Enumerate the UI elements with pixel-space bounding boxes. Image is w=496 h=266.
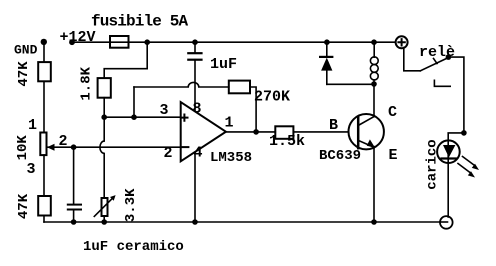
relay switch blade [420,58,447,71]
trimmer R5 3.3K [102,198,108,216]
NO contact [434,80,450,86]
junction rail/coil [371,39,377,45]
terminal output (bottom) [440,216,453,229]
svg-text:GND: GND [14,43,38,58]
wire pin4 to rail [194,152,196,222]
resistor R6 1.5k [275,126,293,139]
wire GND to R1 [43,42,45,62]
minus symbol (pin2) [181,146,188,148]
junction switch contact [446,54,452,60]
wire switch to LED [448,57,464,141]
resistor R2 47K (bottom) [38,196,51,216]
capacitor C2 1uF ceramico [73,147,75,204]
wire pin3 input [104,116,181,118]
junction feedback tap [131,114,137,120]
relay coil L1 [373,42,375,57]
wire op-amp output [226,131,275,133]
plus symbol (pin3) [181,115,187,121]
wire pot to R2 [43,155,45,196]
svg-text:1.5k: 1.5k [269,133,305,150]
svg-text:B: B [329,117,338,134]
svg-text:8: 8 [193,101,202,118]
wire trimmer to rail [103,216,105,222]
trimmer arrow [94,198,113,217]
svg-text:+12V: +12V [60,29,96,46]
wire C1 to pin8 [194,60,196,111]
base bar [357,117,360,148]
potentiometer P1 10K [40,133,46,156]
svg-text:carico: carico [425,139,441,189]
fuse F1 [110,36,129,48]
wire bottom rail [44,221,447,223]
node A (non-inverting input net) [101,114,107,120]
diode D1 [326,42,328,57]
wire terminal to switch pivot [404,48,421,71]
junction emitter/rail [371,219,377,225]
wire R4 to output node [250,87,256,132]
wire R3 to node A [103,98,105,118]
svg-text:fusibile 5A: fusibile 5A [91,13,189,31]
node GND terminal [41,39,47,45]
svg-text:3: 3 [160,102,169,119]
svg-text:BC639: BC639 [319,148,361,164]
svg-text:LM358: LM358 [210,150,252,166]
wire top rail [72,41,397,43]
wire base [293,131,348,133]
LED arrow 2 [458,164,470,173]
terminal + (relay supply) [396,36,408,48]
wire emitter to rail [373,147,375,222]
wire R1 to potentiometer [43,81,45,132]
emitter stroke [358,140,374,147]
op-amp U1 LM358 [181,102,226,161]
node +12V terminal [69,39,75,45]
capacitor C1 1uF [194,42,196,53]
wire feedback vertical [133,87,135,117]
svg-text:3.3K: 3.3K [123,188,139,222]
svg-text:1uF ceramico: 1uF ceramico [83,239,184,255]
svg-text:relè: relè [419,44,455,61]
wire node A to trimmer with hop [100,117,104,198]
wire diode to coil bottom [327,83,374,85]
junction rail / C1 [192,39,198,45]
svg-text:1: 1 [28,117,37,134]
wire rail to R3 [104,42,147,78]
wire LED to terminal [447,141,449,217]
junction trimmer/rail [101,219,107,225]
resistor R3 1.8K [98,78,111,98]
wiper arrow of potentiometer [47,144,55,151]
junction rail/diode [324,39,330,45]
svg-text:10K: 10K [15,135,31,161]
svg-text:3: 3 [27,161,36,178]
collector stroke [358,117,374,126]
svg-text:E: E [389,147,398,164]
rail into terminal [440,221,448,223]
junction corner dot [461,130,467,136]
resistor R1 47K (top) [38,62,51,81]
junction pin4/rail [192,219,198,225]
junction top rail / R3 branch [144,39,150,45]
junction C2 tap [71,144,77,150]
junction coil bottom [371,81,377,87]
resistor R4 270K [229,81,250,94]
svg-text:47K: 47K [16,193,32,219]
svg-text:47K: 47K [16,61,32,87]
transistor Q1 BC639 [349,114,384,149]
emitter arrowhead [367,139,375,147]
svg-text:1.8K: 1.8K [79,66,95,100]
svg-text:1: 1 [225,115,234,132]
wire feedback horizontal with hop [134,82,229,87]
LED D2 [437,140,460,163]
junction C2/rail [71,219,77,225]
LED arrow 1 [463,157,475,166]
wire R2 to bottom rail [43,216,45,223]
blade tick [434,59,438,64]
wire pin2 input from pot wiper [47,146,181,148]
svg-text:270K: 270K [254,89,290,106]
svg-text:1uF: 1uF [210,56,237,73]
junction output node [253,129,259,135]
svg-text:C: C [388,104,397,121]
